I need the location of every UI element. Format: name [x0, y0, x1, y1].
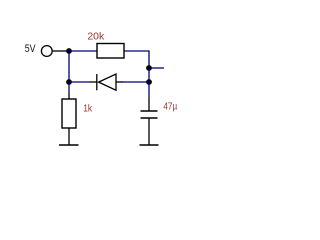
resistor R1 20k [97, 44, 124, 59]
wire resistor to right corner [125, 51, 150, 66]
wire right rail segment [148, 68, 150, 80]
wire right rail to capacitor [148, 82, 150, 98]
wire top rail to resistor [69, 50, 97, 52]
svg-text:20k: 20k [87, 32, 105, 43]
node junction top-left [66, 48, 72, 54]
lead to 1k resistor [68, 93, 70, 99]
wire diode row right [122, 81, 149, 83]
capacitor C1 47u [141, 98, 158, 145]
lead 1k to ground [68, 128, 70, 145]
node output junction [146, 65, 152, 71]
node left diode junction [66, 79, 72, 85]
ground GND1 [59, 144, 79, 146]
svg-text:1k: 1k [83, 104, 93, 115]
svg-text:47µ: 47µ [163, 102, 177, 113]
diode D1 [89, 74, 123, 90]
wire source lead [52, 50, 67, 52]
ground GND2 [140, 144, 159, 146]
resistor R2 1k [62, 99, 76, 128]
node diode-cap junction [146, 79, 152, 85]
wire left rail down [68, 51, 70, 80]
svg-text:5V: 5V [25, 43, 36, 55]
wire to 1k resistor [68, 82, 70, 93]
wire diode row left [69, 81, 89, 83]
voltage source V1 [41, 46, 52, 57]
wire output stub [151, 67, 164, 69]
